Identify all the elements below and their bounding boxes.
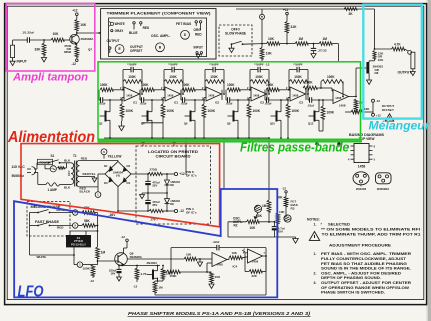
svg-text:D1: D1 [104,164,108,168]
svg-text:-12: -12 [179,209,184,213]
stage6 FET source [319,125,323,132]
gray connector icon [111,30,113,32]
svg-text:10K: 10K [378,58,384,62]
svg-text:IC2: IC2 [215,100,220,104]
zener bottom [165,193,181,212]
svg-text:INPUT: INPUT [17,60,28,64]
emitter wire [76,44,78,46]
stage3 pin numbers [202,86,204,100]
svg-text:BLUE: BLUE [129,31,138,35]
wire plug top [34,163,49,169]
uparrow +12 to filters [141,141,144,147]
adjustment heading [329,243,392,247]
svg-text:100K: 100K [170,274,178,278]
wire buffer output [77,32,101,34]
label WHITE [115,22,125,26]
-12 pin emitter [72,57,79,66]
stage2 drop to bus [162,117,164,139]
label 2N3638A [81,37,95,41]
resistor 1M a [295,37,308,46]
resistor 1M bottom [153,281,163,295]
svg-text:10K: 10K [364,107,370,111]
stage4 output wire [266,90,269,100]
svg-text:-12: -12 [282,187,287,191]
label BLUE wire [57,208,65,212]
trimmer inner box [109,18,207,57]
label 230V rotated [69,170,71,176]
ground under 33K [41,55,46,62]
stage4 drop to bus [248,117,250,139]
sweep wire down [374,9,376,50]
wire rail left [228,221,269,223]
stage5 input resistor 100K [266,83,290,92]
adj 1 line4 [321,267,411,271]
label GRAY [115,29,125,33]
sweep wire top [236,8,375,10]
svg-text:1.: 1. [314,223,317,227]
secondary top wire [79,160,118,161]
stage3 drop to bus [203,117,205,139]
resistor 1M bias [262,200,271,212]
label WHITE [37,255,47,259]
svg-text:SELECTED: SELECTED [328,223,351,227]
input jack ground arrow [10,58,15,66]
svg-text:100K: 100K [100,83,108,87]
svg-text:INPUT: INPUT [194,45,204,49]
svg-text:1M: 1M [101,250,106,254]
op-amp IC2 stage4 [251,87,267,104]
circled 6 pin [101,149,107,159]
bottom rail [228,236,296,238]
capacitor 220uf [109,265,122,281]
svg-text:OF OPERATING RANGE WHEN OFF/S: OF OPERATING RANGE WHEN OFF/SLOW [321,286,410,290]
svg-text:-12: -12 [133,284,138,288]
label PIN 4 OF ICs [186,207,197,215]
label -12 near 50PF [265,62,270,66]
wire to 100K [82,264,93,266]
mixer FET 2N4303 [362,59,375,80]
svg-text:33K: 33K [35,47,42,51]
op-amp IC4b [244,248,266,264]
label BLUE [129,31,138,35]
offset wire right [363,111,373,113]
pin output [109,47,111,53]
switch S1 [48,154,71,164]
stage6 feedback resistor 100K [320,75,344,97]
label OSC. AMPL. [151,34,170,38]
label 1458 pkg [358,165,366,169]
stage2 input resistor 100K [141,83,165,92]
stage5 feedback wires [288,70,309,95]
blue label LFO [18,283,44,300]
bus drop x186 [185,138,187,175]
svg-text:RED: RED [57,226,64,230]
adj 1 line2 [321,257,407,261]
svg-text:Q2: Q2 [99,122,103,126]
svg-text:FAST PHASE: FAST PHASE [35,220,60,224]
switch medium [30,210,73,214]
circled 2 pin [72,210,82,216]
resistor 10K bias [279,197,288,215]
label Q7 [88,48,92,52]
label PIN 8 OF ICs [186,170,197,178]
svg-text:.01uf: .01uf [307,103,314,107]
svg-text:D8: D8 [375,71,379,75]
label .01uf stage6 [307,103,314,107]
resistor 82K [82,206,95,214]
svg-text:OUTPUT OFFSET - ADJUST FOR CEN: OUTPUT OFFSET - ADJUST FOR CENTER [321,281,412,285]
O-12 pin offset [372,99,381,112]
FET source bus wire [104,137,270,139]
svg-text:56K: 56K [84,219,90,223]
bridge labels [104,164,131,185]
svg-text:10K: 10K [53,32,60,36]
svg-text:270Ω: 270Ω [150,167,158,171]
stage5 output wire [305,90,308,100]
svg-text:-12: -12 [121,235,126,239]
green label Filtres passe-bande [240,141,349,155]
bus drop x224 [223,138,225,189]
pin org [195,21,197,26]
label BASING DIAGRAMS [349,133,385,141]
ground bottom rail [293,237,299,243]
svg-text:230V: 230V [69,170,71,176]
label RED [143,26,150,30]
resistor 4.7K lfo [133,265,148,289]
svg-text:10K: 10K [266,51,273,55]
label -26V [109,213,117,217]
Q8 emitter wire [119,264,160,267]
collector wire [76,31,78,35]
FET source join [158,278,164,282]
svg-text:100K: 100K [126,109,134,113]
svg-text:2N3638A: 2N3638A [130,255,143,259]
stage2 feedback resistor 100K [164,75,183,83]
svg-text:**50PF: **50PF [127,62,137,66]
svg-text:100K: 100K [327,110,335,114]
resistor 41K [285,22,297,44]
junction dot [261,43,263,45]
B output to bottom [155,256,266,295]
label 33K [256,214,263,218]
label INPUT [17,60,28,64]
stage2 resistor 100K to bus [161,99,175,117]
transistor Q8 [115,253,128,266]
svg-text:FET BIAS SO THAT AUDIBLE PHASI: FET BIAS SO THAT AUDIBLE PHASING [321,262,407,266]
label 15K [161,265,172,281]
svg-text:** ON SOME MODELS TO ELIMINATE: ** ON SOME MODELS TO ELIMINATE RFI [321,227,420,231]
svg-text:+12: +12 [376,113,381,117]
label 2N4303 case [356,187,367,191]
capacitor .27/.33 [311,44,327,53]
mixer FET source ground [367,80,372,84]
stage6 cap .01uf [308,88,333,103]
note 1 selected [314,223,351,227]
switch S2 [231,41,244,45]
label MEDIUM PHASE [31,205,62,209]
svg-text:**50PF: **50PF [254,62,264,66]
stage4 input resistor 100K [227,83,251,92]
circled 1 pin lfo [74,262,83,268]
stage1 feedback resistor 100K [123,75,142,83]
svg-text:100K: 100K [128,75,136,79]
svg-text:50/60Hz: 50/60Hz [12,174,25,178]
+12 pin top [72,8,78,19]
stage6 resistor 100K vertical [321,99,335,131]
svg-text:PS-13-01LY: PS-13-01LY [71,242,86,246]
trimmer R2 circle [254,205,261,212]
svg-text:100K: 100K [327,75,335,79]
svg-text:115 VAC: 115 VAC [12,165,26,169]
svg-text:R3: R3 [291,206,295,210]
wire node down [261,9,263,48]
uparrow -12 feed s6b [337,142,340,148]
stage1 pin numbers [120,86,122,100]
stage6 input resistor 100K [303,81,329,94]
svg-text:OF IC's: OF IC's [186,174,197,178]
svg-text:41K: 41K [291,25,298,29]
svg-text:2.: 2. [314,271,317,275]
svg-text:10K: 10K [268,37,275,41]
K1 top wires [70,231,98,235]
circled node top [260,14,265,19]
-12 output pin [174,209,184,213]
+12 pin [283,8,289,22]
-12 under 100K [90,276,95,283]
center tap wire [79,176,94,178]
transistor Q7 2N3638A [70,34,80,44]
svg-text:1458: 1458 [253,93,260,97]
dashed box OFF SLOW PHASE [219,25,252,56]
optocoupler K1 box [66,235,91,247]
center tap arrow [92,178,97,182]
svg-text:1458: 1458 [339,104,346,108]
svg-text:Q8: Q8 [227,122,231,126]
FET Q10 stage5 [270,108,281,126]
svg-text:1458: 1458 [358,165,366,169]
svg-text:RED: RED [143,26,150,30]
POWER lamp box [38,159,53,164]
svg-text:100K: 100K [253,109,261,113]
stage1 cap **50PF [123,62,142,72]
resistor 2K [344,7,357,15]
svg-text:OFFSET: OFFSET [382,108,394,112]
svg-text:Mélangeur: Mélangeur [369,121,431,133]
svg-text:PHASE SWITCH IS SWITCHED.: PHASE SWITCH IS SWITCHED. [321,291,385,295]
svg-text:PHASE SHIFTER MODELS PS-1A AND: PHASE SHIFTER MODELS PS-1A AND PS-1B (VE… [128,311,311,316]
svg-text:1.: 1. [314,252,317,256]
svg-text:100K: 100K [266,83,274,87]
wire rail right [269,221,275,223]
junction dot 2 [280,43,296,45]
svg-text:ADJUSTMENT PROCEDURE: ADJUSTMENT PROCEDURE [329,243,392,247]
svg-text:.1/1.35uf: .1/1.35uf [22,31,35,35]
FET Q8 stage4 [227,108,238,126]
trimmer placement outer box [101,9,216,59]
svg-text:100K: 100K [141,83,149,87]
Q8 collector wire [124,248,128,253]
lamp resistor [58,163,67,170]
transformer core [74,161,76,187]
adj 1 line1 [314,252,412,256]
feedback cap .22uf [171,240,266,250]
label ORG [194,28,202,32]
stage3 feedback resistor 100K [205,75,224,83]
label 50/60Hz [12,174,25,178]
resistor 10K collector [75,20,87,31]
FET Q2 stage1 [99,108,110,126]
svg-text:100K: 100K [294,75,302,79]
svg-text:1 AMP: 1 AMP [48,188,57,192]
label RED wire [57,226,64,230]
stage5 drop to bus [287,117,289,139]
bridge minus wire [117,187,149,212]
gate bus segment [142,122,164,124]
svg-text:BLK: BLK [64,186,71,190]
IC pins right [369,146,373,159]
stage4 resistor 100K to bus [247,99,261,117]
B out to cap line [265,248,267,256]
label FET BIAS [176,22,192,26]
adj 3 line2 [321,286,410,290]
svg-text:TO ELIMINATE THUMP, ADD TRIM P: TO ELIMINATE THUMP, ADD TRIM POT R1 [322,232,421,236]
pot 10K wiper arrow [254,212,258,218]
resistor 270 plus [136,167,174,175]
stage4 feedback resistor 100K [250,75,269,83]
svg-text:16V: 16V [111,272,116,276]
node to Q8 base [93,259,115,265]
feedback vertical left [170,248,172,273]
svg-text:-12: -12 [90,279,95,283]
resistor 1M b [319,37,332,46]
green box filtres [98,62,361,140]
svg-text:T1: T1 [73,154,77,158]
svg-text:-12: -12 [376,99,381,103]
svg-text:Q10: Q10 [270,122,275,126]
svg-text:RED: RED [81,156,88,160]
pink box ampli [6,3,95,71]
svg-text:.27/.33: .27/.33 [318,49,327,53]
svg-text:4.7K: 4.7K [394,43,401,47]
label OFF SLOW PHASE [225,28,247,36]
stage2 FET drain wire [151,99,153,107]
svg-text:100K: 100K [83,267,91,271]
resistor 1M offset [354,99,363,112]
svg-text:35V: 35V [152,184,157,188]
caption title [128,311,311,316]
bus corner down x269 [268,138,270,200]
notes heading [307,218,320,222]
vertical left leg [227,222,229,237]
svg-text:Filtres passe-bande: Filtres passe-bande [240,141,349,155]
svg-text:WHITE: WHITE [37,255,47,259]
resistor 56K [82,219,95,227]
svg-text:**50PF: **50PF [209,62,219,66]
stage3 output wire [221,90,224,100]
op-amp IC1 stage1 [124,87,140,104]
svg-text:1M: 1M [159,285,164,289]
stage5 resistor 100K to bus [286,99,300,117]
capacitor 4.7uf [272,222,285,237]
svg-text:D2: D2 [127,164,131,168]
label OUTPUT [107,39,120,43]
svg-text:D4: D4 [127,181,131,185]
resistor 10K gnd [207,272,221,288]
svg-text:OUTPUT: OUTPUT [107,39,120,43]
resistor 10K horizontal [262,37,280,46]
output jack body [411,52,415,69]
stage3 cap .01uf [181,90,207,106]
label YELLOW [108,155,123,159]
FET Q12 stage6 [308,108,319,126]
left bus in box [29,213,31,226]
svg-text:.01uf: .01uf [99,102,106,106]
svg-text:(4): (4) [116,174,120,178]
stage1 feedback wires [122,70,143,95]
lamp circle [45,165,56,172]
stage2 pin numbers [161,86,163,100]
svg-text:.01uf: .01uf [265,102,272,106]
stage2 FET source drop [151,125,153,139]
resistor 10K series [51,32,64,42]
svg-text:ORG: ORG [194,28,202,32]
svg-text:680Ω: 680Ω [64,50,72,54]
stage1 FET source drop [109,125,111,139]
svg-text:LFO: LFO [18,283,44,300]
scan edge shading right [426,0,431,321]
svg-text:100K: 100K [255,75,263,79]
svg-text:SLOW PHASE: SLOW PHASE [225,31,247,35]
svg-text:.01uf: .01uf [181,102,188,106]
wire input to cap [13,39,27,41]
stage5 FET source drop [280,125,282,139]
svg-text:Q6: Q6 [184,122,188,126]
svg-text:1458: 1458 [208,93,215,97]
bridge center label [113,170,123,177]
svg-text:R2: R2 [234,223,238,227]
svg-text:100K: 100K [292,109,300,113]
pins input [196,52,203,56]
pot resistor 10K [247,220,260,230]
svg-text:DEPTH OF PHASING SOUND.: DEPTH OF PHASING SOUND. [321,276,381,280]
svg-text:.01uf: .01uf [226,102,233,106]
svg-text:IC3: IC3 [299,100,304,104]
IC pins left [351,146,355,159]
svg-text:1458: 1458 [335,96,342,100]
pin blue [133,22,135,30]
stage1 input resistor 100K [100,83,124,92]
ground under cap [311,51,316,58]
svg-text:Ampli tampon: Ampli tampon [12,72,88,84]
svg-text:100K: 100K [208,109,216,113]
label 50K top [277,196,284,200]
svg-text:2N4303: 2N4303 [147,261,158,265]
svg-text:OSC. AMPL.: OSC. AMPL. [151,34,170,38]
label OSC AMPL R2 [233,216,243,227]
stage3 FET drain wire [194,99,196,107]
wire 1M to rail [268,212,270,223]
title TRIMMER PLACEMENT [107,12,211,16]
ground tap [197,258,202,266]
svg-text:1M: 1M [323,37,328,41]
svg-text:FULLY COUNTERCLOCKWISE, ADJUST: FULLY COUNTERCLOCKWISE, ADJUST [321,257,407,261]
label FET BIAS R3 [291,200,298,211]
trimmer R3 circle [284,215,291,222]
stage1 resistor 100K to bus [120,99,134,117]
wire WHITE [30,226,75,256]
adj 3 line3 [321,291,385,295]
svg-text:FET BIAS: FET BIAS [176,22,192,26]
